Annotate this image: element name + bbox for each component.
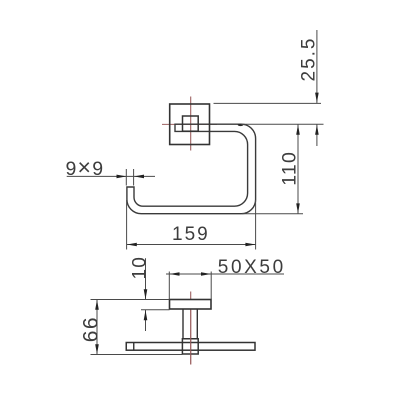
extension line 9x9 left	[125, 169, 127, 186]
svg-text:110: 110	[279, 151, 301, 186]
extension line 50x50 right	[210, 272, 212, 300]
extension line 159 left	[126, 200, 128, 250]
arrow 50x50 right	[201, 272, 211, 276]
arrow 25.5 down	[315, 93, 319, 103]
wall plate square 50x50 (front view)	[170, 104, 210, 145]
dimension line 25.5 upper tail	[316, 30, 318, 103]
extension line from plate top for 25.5 dim	[214, 102, 322, 104]
svg-text:66: 66	[80, 316, 103, 342]
inner collar square (front view)	[183, 116, 199, 131]
arrow 50x50 left	[170, 272, 180, 276]
dimension line 159	[127, 244, 256, 246]
extension line from plate bottom (for 10 dim)	[141, 309, 170, 311]
arrow 159 right	[245, 243, 255, 247]
extension line 50x50 left	[168, 272, 170, 300]
arrow 110 up	[296, 125, 300, 135]
svg-text:9×9: 9×9	[66, 154, 105, 180]
svg-text:159: 159	[172, 224, 210, 245]
post right line (bottom view)	[196, 309, 198, 339]
arrow 10 up	[144, 310, 148, 320]
dimension line 66	[96, 300, 98, 355]
red vertical centerline (bottom view)	[190, 292, 192, 365]
ring bar seen from top	[126, 343, 255, 351]
extension line from hub bottom (for 66 dim)	[91, 354, 183, 356]
red centerline overlay through hub	[190, 310, 192, 365]
arrow 66 down	[95, 344, 99, 354]
arrow 25.5 up	[315, 125, 319, 135]
dimension/leader line 50x50	[166, 273, 284, 275]
towel ring tube outline (front view)	[127, 124, 256, 214]
svg-text:25.5: 25.5	[299, 37, 320, 82]
dimension line 25.5 lower tail	[316, 125, 318, 147]
arrow 9x9 pointing right	[117, 175, 127, 179]
extension line 159 right	[255, 200, 257, 250]
arrow 9x9 pointing left	[134, 175, 144, 179]
svg-text:10: 10	[130, 256, 151, 280]
extension line from tube bottom for 110 dim	[242, 213, 303, 215]
dimension line 10 lower tail	[145, 310, 147, 331]
extension line from tube top for 25.5/110 dims	[241, 123, 323, 125]
arrow 159 left	[127, 243, 137, 247]
dimension line 110	[297, 125, 299, 214]
dimension line 10 upper tail	[145, 258, 147, 299]
arrow 66 up	[95, 300, 99, 310]
red vertical centerline of wall plate (front view)	[190, 97, 192, 151]
svg-text:50X50: 50X50	[218, 257, 286, 278]
post left line (bottom view)	[182, 309, 184, 339]
arrow 10 down	[144, 289, 148, 299]
tick blob at tube-top tangent junction	[238, 124, 244, 126]
ring bar left end cap line	[133, 343, 135, 351]
dimension line 9x9	[67, 175, 155, 177]
wall plate seen from top	[170, 300, 212, 310]
red horizontal centerline of wall plate (front view)	[162, 123, 217, 125]
extension line from plate top (for 66 and 10 dims)	[91, 299, 170, 301]
extension line 9x9 right	[133, 169, 135, 186]
hub block (bottom view)	[182, 339, 198, 354]
arrow 110 down	[296, 203, 300, 213]
